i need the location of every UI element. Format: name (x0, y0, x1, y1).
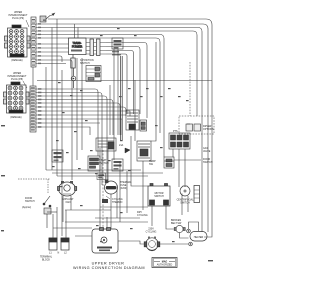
fuse F1 (71, 55, 76, 89)
3-position switch S1 (80, 59, 101, 82)
mid verticals to bottom m3 (110, 194, 112, 229)
wire strip1 lower 3 (36, 63, 66, 65)
svg-text:AUTHORIZED: AUTHORIZED (157, 264, 173, 267)
svg-text:BELT SW: BELT SW (171, 222, 182, 225)
svg-text:HEATER: HEATER (194, 236, 204, 239)
temp selector (149, 157, 174, 168)
lower strip wires b7 (36, 111, 130, 116)
motor drop right (166, 206, 174, 229)
wire to connector J2 row3 (106, 51, 134, 115)
mid verticals m10 (116, 185, 118, 218)
lower strip wires b5 (36, 103, 120, 135)
strip row marks TS1 (32, 19, 35, 66)
mid verticals m6 (109, 85, 111, 135)
lower strip wires b9 (36, 119, 122, 135)
wires group (36, 19, 212, 244)
pts drops (173, 149, 185, 187)
transformer feed drop 1 (74, 24, 76, 38)
wire stub labels strip2 (38, 88, 41, 128)
part label box (152, 258, 177, 268)
wire y212 (47, 211, 57, 213)
mid verticals m9 (134, 80, 136, 141)
mid verticals to bottom m4 (119, 161, 121, 222)
vertical bundle center v3 (56, 19, 58, 176)
transformer feed drop 2 (77, 28, 79, 39)
connector P9 label (9, 11, 30, 27)
motor drop left (151, 206, 153, 226)
wire y207 (100, 207, 148, 229)
ground lug at top (40, 13, 55, 22)
svg-text:SWITCH: SWITCH (25, 200, 35, 203)
wire strip1 lower 1 (36, 56, 62, 62)
wire top bundle A2 (36, 28, 202, 233)
heater top link (189, 222, 199, 231)
wire speck labels (1, 20, 213, 262)
heavy vertical pair (121, 56, 123, 141)
push-to-start switch cluster (169, 130, 190, 149)
wire to transformer 1 (36, 43, 69, 45)
wire to connector J2 row4 (106, 54, 127, 114)
lower strip wires b11 (36, 127, 90, 135)
relay box left (52, 150, 63, 162)
junction box small (97, 173, 106, 180)
svg-text:SWITCH: SWITCH (154, 195, 164, 198)
svg-text:(FEMALE): (FEMALE) (11, 59, 22, 62)
lower strip wires b1 (36, 89, 98, 156)
connector P8 label (8, 72, 28, 88)
relay K1 (126, 110, 139, 130)
vertical bundle center v1 (45, 67, 47, 170)
right verticals r2 (164, 160, 174, 162)
centrifugal switch (177, 186, 200, 205)
svg-text:OPTIONS: OPTIONS (203, 128, 214, 131)
aux box (112, 159, 123, 171)
vertical bundle center v5 (76, 58, 78, 160)
wire top bundle A5 (36, 38, 160, 133)
wedge connector (119, 144, 130, 153)
wire top outer (48, 19, 212, 237)
lower strip wires b6 (36, 107, 126, 116)
strip link wire (32, 67, 34, 86)
wire top bundle A3 (36, 31, 197, 116)
svg-text:PLUG (P8): PLUG (P8) (11, 78, 23, 81)
connector J2 (86, 39, 106, 56)
buzzer BZ1 (88, 156, 109, 171)
connector P9 (5, 25, 31, 62)
belt switch (171, 219, 185, 233)
terminal strip TS1 (31, 17, 36, 67)
lower strip wires b4 (36, 100, 113, 136)
bottom rail 2 (63, 196, 148, 222)
svg-text:21A: 21A (119, 144, 124, 147)
motor feed left (118, 241, 144, 244)
dry cycling label (137, 211, 148, 217)
buzzer oval (58, 181, 77, 204)
title (73, 262, 145, 271)
wire to connector J2 row2 (106, 47, 140, 115)
strip row marks TS2 (31, 87, 35, 130)
dashed vertical (102, 150, 104, 232)
bottom rail 3 (75, 235, 92, 237)
wire y210 (65, 210, 140, 218)
lower strip wires b3 (36, 96, 107, 180)
wire to connector J2 row1 (106, 43, 147, 119)
svg-text:SWITCH: SWITCH (80, 62, 90, 65)
vertical bundle center v4 (61, 70, 63, 236)
right verticals r1 (151, 42, 156, 141)
heater HTR1 (187, 229, 207, 246)
heater link (160, 243, 188, 245)
mid verticals m8 (117, 49, 119, 135)
mid verticals to bottom m1 (99, 148, 101, 229)
svg-text:WIRING CONNECTION DIAGRAM: WIRING CONNECTION DIAGRAM (73, 266, 145, 270)
svg-text:BLOCK: BLOCK (42, 259, 51, 262)
wire strip1 lower 2 (36, 60, 72, 180)
lower strip wires b10 (36, 122, 100, 124)
mid verticals to bottom m5 (131, 136, 148, 186)
long horizontal y80 (37, 80, 212, 82)
horizontal bundle y170 (46, 169, 141, 171)
wire to transformer 3 (36, 51, 69, 53)
thermostat TH1 (105, 180, 133, 195)
solenoid K3 (140, 120, 147, 131)
svg-text:(F200): (F200) (120, 187, 127, 190)
belt drop (180, 233, 189, 238)
terminal drops (53, 207, 66, 238)
mid verticals to bottom m2 (107, 148, 109, 180)
horizontal bundle y173 (52, 172, 163, 174)
wire top bundle A1 (36, 24, 208, 232)
connector P8 (4, 82, 30, 119)
horizontal bundle y176 (57, 175, 148, 177)
relay K2 (96, 138, 116, 151)
drive motor M1 (144, 236, 160, 250)
cycling thermostat label (102, 196, 123, 204)
transformer T1 (69, 38, 87, 55)
right label pointer 2 (174, 159, 201, 161)
centrifugal drops (182, 194, 188, 216)
terminal block TB1 (40, 238, 69, 262)
wire to transformer 2 (36, 47, 69, 49)
svg-text:CYCLING: CYCLING (137, 214, 148, 217)
connector P3 (112, 38, 123, 55)
motor switch box (148, 184, 170, 207)
lower strip wires b8 (36, 114, 126, 116)
svg-text:PTS: PTS (173, 130, 178, 133)
timer drop to motor (142, 161, 144, 210)
door switch label right (203, 147, 213, 164)
mid verticals m11 (126, 171, 128, 213)
right label pointer 1 (187, 123, 190, 125)
svg-text:CYCLING: CYCLING (146, 231, 157, 234)
bottom rail 1 (53, 227, 92, 229)
lower strip wires b2 (36, 93, 102, 186)
svg-text:VALVE: VALVE (203, 150, 211, 153)
svg-text:PLUG (P9): PLUG (P9) (12, 17, 24, 20)
timer block (137, 141, 151, 161)
door switch S2 (18, 179, 51, 228)
dryness control boxes (179, 62, 214, 134)
svg-text:N: N (58, 252, 60, 255)
wire stub labels strip1 (38, 23, 41, 64)
cycling label (146, 228, 157, 234)
wire top bundle A4 (36, 35, 164, 158)
svg-text:(FEMALE): (FEMALE) (10, 116, 21, 119)
vertical bundle center v2 (51, 28, 53, 171)
mid verticals m7 (113, 49, 115, 160)
svg-text:(Approx): (Approx) (22, 206, 31, 209)
vertical bundle center v6 (81, 58, 83, 150)
svg-text:UPPER DRYER: UPPER DRYER (92, 262, 125, 266)
idler motor box (92, 228, 118, 254)
terminal strip TS2 (30, 86, 36, 132)
svg-text:FAN: FAN (66, 201, 71, 204)
svg-text:FORMER: FORMER (72, 46, 83, 49)
